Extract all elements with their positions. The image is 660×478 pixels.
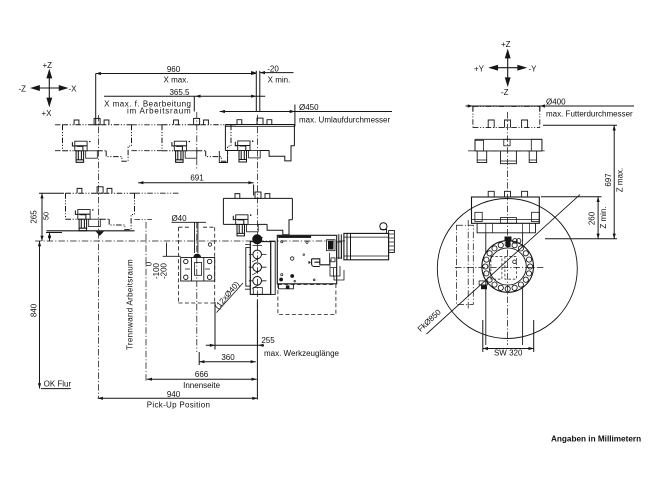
svg-text:max. Werkzeuglänge: max. Werkzeuglänge: [264, 349, 340, 358]
svg-text:Ø40: Ø40: [171, 214, 187, 223]
svg-text:SW 320: SW 320: [494, 349, 523, 358]
svg-text:960: 960: [167, 65, 181, 74]
svg-text:Z min.: Z min.: [599, 206, 608, 228]
svg-text:697: 697: [604, 173, 613, 187]
svg-text:360: 360: [221, 353, 235, 362]
svg-text:940: 940: [167, 390, 181, 399]
svg-text:-Z: -Z: [19, 85, 27, 94]
svg-text:265: 265: [30, 210, 39, 224]
svg-text:-X: -X: [69, 85, 78, 94]
svg-text:(12xØ40): (12xØ40): [213, 279, 242, 311]
svg-text:-20: -20: [267, 64, 279, 73]
svg-text:666: 666: [195, 370, 209, 379]
svg-text:max. Futterdurchmesser: max. Futterdurchmesser: [546, 110, 633, 119]
svg-text:840: 840: [30, 303, 39, 317]
svg-text:Pick-Up Position: Pick-Up Position: [147, 401, 211, 410]
svg-text:255: 255: [261, 336, 275, 345]
svg-text:-Y: -Y: [529, 65, 538, 74]
svg-text:365.5: 365.5: [169, 88, 190, 97]
svg-text:im Arbeitsraum: im Arbeitsraum: [127, 107, 192, 116]
svg-text:Trennwand Arbeitsraum: Trennwand Arbeitsraum: [126, 259, 135, 350]
svg-text:Ø450: Ø450: [299, 103, 319, 112]
svg-text:691: 691: [190, 174, 204, 183]
svg-text:-Z: -Z: [501, 88, 509, 97]
svg-text:Ø400: Ø400: [546, 97, 566, 106]
svg-text:+Z: +Z: [43, 61, 53, 70]
svg-text:-200: -200: [160, 262, 169, 279]
svg-text:X min.: X min.: [268, 76, 291, 85]
svg-text:FkØ850: FkØ850: [416, 307, 443, 333]
svg-text:50: 50: [42, 212, 51, 220]
svg-text:max. Umlaufdurchmesser: max. Umlaufdurchmesser: [299, 116, 390, 125]
svg-text:OK Flur: OK Flur: [44, 380, 72, 389]
svg-text:Z max.: Z max.: [616, 168, 625, 192]
svg-text:X max.: X max.: [164, 76, 189, 85]
svg-text:Innenseite: Innenseite: [183, 381, 220, 390]
svg-text:+Z: +Z: [501, 40, 511, 49]
svg-text:260: 260: [588, 211, 597, 225]
svg-text:Angaben in Millimetern: Angaben in Millimetern: [551, 435, 641, 444]
svg-text:+X: +X: [42, 109, 53, 118]
svg-text:+Y: +Y: [474, 65, 485, 74]
